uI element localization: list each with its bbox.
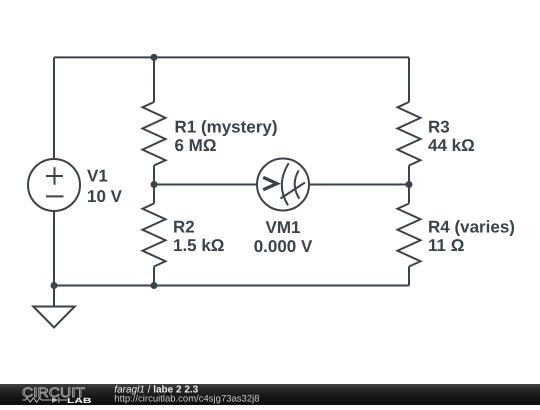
- node at middle right junction: [406, 181, 413, 188]
- svg-text:44 kΩ: 44 kΩ: [428, 136, 475, 155]
- CircuitLab logo resistor zigzag and diode: [22, 397, 67, 403]
- wire V1 bottom lead: [53, 211, 55, 286]
- svg-text:R3: R3: [428, 117, 450, 136]
- svg-text:VM1: VM1: [266, 218, 301, 237]
- svg-text:V1: V1: [87, 167, 108, 186]
- wire R1 top lead: [153, 57, 155, 102]
- wire mid node to VM1 left terminal: [154, 184, 257, 186]
- wire top from V1 to R3: [54, 56, 409, 58]
- svg-text:0.000 V: 0.000 V: [254, 237, 313, 256]
- voltmeter VM1: [257, 159, 309, 211]
- wire R4 bottom lead: [408, 267, 410, 286]
- svg-text:10 V: 10 V: [87, 187, 123, 206]
- node at middle left junction: [151, 181, 158, 188]
- svg-text:R2: R2: [173, 218, 195, 237]
- node at ground junction: [51, 282, 58, 289]
- wire R3 bottom lead to node: [408, 166, 410, 204]
- ground: [33, 307, 74, 328]
- resistor R3: [398, 102, 421, 166]
- wire R1 bottom lead to node: [153, 166, 155, 204]
- wire VM1 right terminal to right node: [309, 184, 409, 186]
- node at bottom of R2: [151, 282, 158, 289]
- wire ground stem: [53, 286, 55, 307]
- resistor R2: [143, 204, 166, 267]
- wire R2 bottom lead: [153, 267, 155, 286]
- svg-text:R1 (mystery): R1 (mystery): [175, 117, 278, 136]
- resistor R1: [143, 102, 166, 166]
- svg-text:LAB: LAB: [67, 396, 92, 405]
- svg-text:R4 (varies): R4 (varies): [428, 218, 515, 237]
- voltage source V1: [28, 159, 80, 211]
- resistor R4: [398, 204, 421, 267]
- svg-text:6 MΩ: 6 MΩ: [175, 136, 217, 155]
- svg-text:http://circuitlab.com/c4sjg73a: http://circuitlab.com/c4sjg73as32j8: [114, 393, 259, 404]
- node at top of R1: [151, 54, 158, 61]
- wire R3 top lead: [408, 57, 410, 102]
- svg-text:11 Ω: 11 Ω: [428, 236, 464, 255]
- wire bottom from ground node to R4: [54, 285, 409, 287]
- svg-text:1.5 kΩ: 1.5 kΩ: [173, 236, 224, 255]
- wire left vertical V1 top lead: [53, 57, 55, 159]
